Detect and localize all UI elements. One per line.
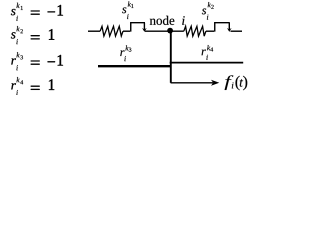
wire: node segment xyxy=(145,30,184,32)
resistor s_i^k2 (right zigzag) xyxy=(184,26,206,36)
equation r_i^k4 = 1 xyxy=(11,77,54,95)
label r_i^k4 xyxy=(202,45,214,60)
wire: resistor 2 to hook 2 riser xyxy=(206,30,214,32)
equation r_i^k3 = -1 xyxy=(11,52,63,70)
label s_i^k2 xyxy=(202,2,214,19)
label f_i(t) xyxy=(225,75,248,90)
label node i xyxy=(150,16,185,25)
wire: r_i^k4 delay line (right) xyxy=(170,62,244,64)
wire: output tail xyxy=(231,30,243,32)
wire: resistor 1 to hook 1 riser xyxy=(123,30,130,32)
output arrow f_i(t) xyxy=(171,80,220,86)
label s_i^k1 xyxy=(122,2,133,19)
equation s_i^k1 = -1 xyxy=(11,3,63,21)
flow-direction hook arrow into node i xyxy=(131,23,147,32)
node i junction dot xyxy=(167,28,173,34)
equation s_i^k2 = 1 xyxy=(11,26,54,44)
wire: left input lead xyxy=(88,30,100,32)
wire: vertical drop from node i xyxy=(170,31,172,83)
wire: r_i^k3 delay line (thick, left) xyxy=(98,65,172,67)
label r_i^k3 xyxy=(120,45,131,61)
flow-direction hook arrow out of resistor 2 xyxy=(215,23,232,32)
resistor s_i^k1 (left zigzag) xyxy=(100,26,123,36)
